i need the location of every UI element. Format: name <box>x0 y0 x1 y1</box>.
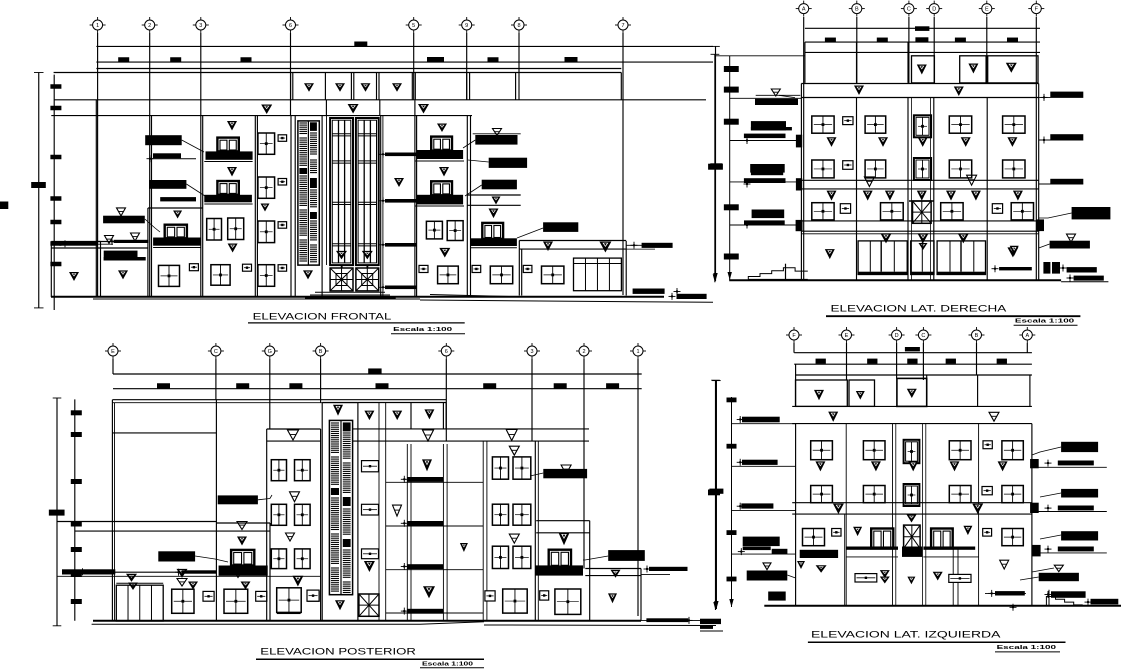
posterior: tower top band <box>267 428 321 430</box>
frontal: tower wall inner <box>326 116 328 266</box>
frontal: arrow bar <box>59 242 98 246</box>
posterior: bay sq r2 <box>362 504 379 515</box>
derecha: mark <box>1007 247 1018 257</box>
izquierda: pent mark <box>907 389 917 398</box>
frontal: S4 ground window <box>211 265 230 286</box>
frontal: S6 window L2 <box>258 221 275 243</box>
izquierda: slab band top <box>792 405 1032 407</box>
frontal: S10 balcony rail 4 <box>417 150 463 159</box>
posterior: tw r2 a <box>271 504 286 525</box>
posterior: left wall slab top <box>57 521 216 523</box>
izquierda: small window <box>855 574 877 582</box>
frontal: S4 balcony rail L4 <box>206 151 253 159</box>
izquierda: stair mass <box>768 592 786 601</box>
frontal: roof band level mark <box>261 105 272 115</box>
svg-text:7: 7 <box>621 23 624 29</box>
svg-text:1: 1 <box>96 23 99 29</box>
derecha: right blob <box>1050 241 1090 249</box>
posterior: label blob mid <box>158 551 195 561</box>
posterior: bay wall d <box>442 444 444 621</box>
frontal: bay slab edge 4 <box>385 286 417 290</box>
izquierda: grid bubble D <box>892 330 902 340</box>
frontal: wall <box>100 242 102 298</box>
posterior: bay floor line 3 <box>386 569 484 571</box>
posterior: grid bubble 3 <box>527 346 537 356</box>
derecha: window r1 <box>1003 116 1025 133</box>
frontal: storefront glazing <box>574 258 622 291</box>
izquierda: right box r2 <box>1030 503 1039 513</box>
izquierda: mark <box>853 527 862 536</box>
frontal: label blob + mark <box>117 208 126 216</box>
posterior: outer dim line <box>56 398 58 626</box>
izquierda: slab2 bottom <box>792 513 1032 515</box>
frontal: S10 window a <box>426 221 442 239</box>
frontal: stair window frame <box>298 121 319 265</box>
frontal: S10 window b <box>447 221 463 241</box>
derecha: slab band bottom <box>801 188 1038 190</box>
izquierda: dim blob <box>867 359 877 364</box>
posterior: CG mark below <box>237 537 247 546</box>
posterior: dim blob high <box>368 368 381 374</box>
frontal: S11 band mark <box>492 197 501 205</box>
derecha: right bar 5 <box>1074 276 1104 281</box>
derecha: level mark r1 <box>918 137 928 147</box>
svg-text:B: B <box>975 333 979 339</box>
posterior: left wall slab bottom <box>75 530 217 532</box>
frontal: S4 balcony line L3 <box>204 203 252 205</box>
derecha: facade right edge <box>1038 84 1040 281</box>
posterior: left dim tick <box>71 547 82 552</box>
posterior: left dim tick <box>71 410 82 415</box>
izquierda: entrance <box>904 525 921 548</box>
svg-text:3: 3 <box>530 349 533 355</box>
posterior: rb mark <box>559 533 570 546</box>
izquierda: slab2 mark <box>972 504 983 515</box>
svg-text:A: A <box>1025 333 1029 339</box>
frontal: dim text blob <box>354 42 367 47</box>
posterior: tw r3 a <box>271 549 286 569</box>
frontal: roof band bottom line <box>51 115 472 117</box>
derecha: window r1 <box>865 116 886 133</box>
posterior: garage door <box>116 585 163 621</box>
derecha: penthouse mark <box>917 65 927 75</box>
derecha: inner dim line <box>729 56 731 280</box>
derecha: window r3 <box>1011 203 1033 220</box>
posterior: mark garage a <box>126 574 137 582</box>
derecha: left dim tick <box>724 119 739 125</box>
posterior: left dim tick <box>71 599 82 604</box>
frontal: left dim tick <box>50 84 61 89</box>
posterior: elev hatch frame <box>329 420 352 594</box>
izquierda: right mark <box>1054 565 1063 572</box>
frontal: left dim tick <box>50 106 61 111</box>
posterior: pent band mark <box>423 430 434 441</box>
frontal: S4 level mark <box>227 167 237 177</box>
izquierda: pent wall left <box>795 364 797 406</box>
frontal: S10 balcony door 3 <box>431 181 452 195</box>
frontal: stair level mark <box>303 270 313 279</box>
frontal: long leader <box>54 243 113 245</box>
frontal: ground line 2 <box>93 298 420 300</box>
frontal: left dim tick <box>50 241 61 246</box>
izquierda: vent <box>983 529 992 537</box>
posterior: annex right edge <box>640 569 642 621</box>
frontal: curtain wall left <box>330 118 353 265</box>
derecha: grid line D <box>933 17 935 83</box>
frontal: grid line 4 <box>290 33 292 115</box>
izquierda: facade left edge <box>795 424 797 605</box>
izquierda: label bar2 <box>742 460 778 465</box>
frontal: right bottom bar <box>633 289 665 294</box>
posterior: mt mark2 <box>509 534 519 543</box>
posterior: bay floor line 4 <box>386 612 484 614</box>
derecha: level mark r3 <box>827 191 837 201</box>
derecha: label bar <box>744 220 785 224</box>
posterior: left dim tick <box>71 432 82 437</box>
derecha: level mark r3 <box>863 191 873 201</box>
posterior: dim blob <box>606 383 619 389</box>
izquierda: mark stacked <box>880 577 890 584</box>
frontal: dim text blob <box>427 57 444 62</box>
frontal: S3 balcony door <box>165 225 187 239</box>
frontal: top dimension line A <box>96 45 713 47</box>
izquierda: bay mark <box>907 515 917 523</box>
posterior: label bar <box>62 569 115 574</box>
frontal: inner left dim line <box>53 75 55 310</box>
frontal: right leader <box>626 248 655 250</box>
svg-text:Escala 1:100: Escala 1:100 <box>1015 319 1074 325</box>
izquierda: porch wall a <box>952 547 954 606</box>
frontal: S1 roof line <box>51 241 100 243</box>
frontal: terrain line <box>430 295 519 297</box>
derecha: parapet line 2 <box>805 41 1040 43</box>
izquierda: ground door <box>931 529 953 549</box>
derecha: elevator window r1 <box>914 115 931 137</box>
derecha: head line <box>801 233 1038 235</box>
izquierda: grid line <box>793 343 795 353</box>
izquierda: right bar1 <box>1058 461 1094 466</box>
derecha: facade wall <box>933 98 935 281</box>
posterior: left dim line <box>74 399 76 620</box>
izquierda: grid line <box>846 343 848 380</box>
posterior: grid bubble G <box>265 346 275 356</box>
posterior: annex mark2 <box>608 593 617 603</box>
izquierda: left dim line <box>715 381 717 609</box>
izquierda: right blob3 <box>1061 531 1098 540</box>
frontal: label blob <box>482 180 517 190</box>
frontal: wall <box>147 208 149 297</box>
frontal: wall <box>256 116 258 298</box>
posterior: tw r3 b <box>295 549 311 569</box>
posterior: elev top mark <box>333 405 343 416</box>
posterior: elev hatch d <box>343 462 351 464</box>
frontal: grid line 1 <box>97 33 99 297</box>
derecha: window r3 <box>941 203 963 220</box>
derecha: elevator bay wall <box>911 98 913 281</box>
izquierda: small window <box>949 574 971 582</box>
frontal: left dim tick <box>50 262 61 267</box>
posterior: grid line <box>637 359 639 616</box>
izquierda: right blob1 <box>1061 442 1098 452</box>
posterior: mark win1 stack b <box>177 579 187 587</box>
derecha: window r3 <box>812 203 834 220</box>
posterior: vent <box>256 591 267 601</box>
frontal: S11 roof band <box>467 204 520 206</box>
izquierda: elevator bay <box>895 424 897 605</box>
posterior: elev hatch g <box>331 533 339 535</box>
frontal: penthouse wall <box>411 73 413 100</box>
derecha: mark below band3 <box>918 233 929 243</box>
posterior: ground window <box>224 589 248 613</box>
frontal: S4 top level mark <box>227 121 237 131</box>
derecha: grid bubble A <box>799 4 809 14</box>
derecha: left dim tick <box>724 204 739 210</box>
frontal: penthouse wall <box>620 73 622 100</box>
izquierda: ground door <box>871 529 893 549</box>
derecha: slab band3 bottom <box>801 230 1038 232</box>
posterior: pent top line <box>358 402 446 404</box>
izquierda: facade wall <box>978 424 980 605</box>
derecha: right boxes <box>1043 262 1050 274</box>
frontal: left dim tick <box>50 196 61 201</box>
posterior: bay mark low <box>423 586 435 598</box>
frontal: S10 balcony line 4 <box>415 160 464 162</box>
derecha: window r2 <box>949 160 971 178</box>
izquierda: grid bubble E <box>842 330 852 340</box>
derecha: roof band bottom <box>801 97 1038 99</box>
posterior: mark garage b <box>128 583 138 591</box>
posterior: left dim tick <box>71 522 82 527</box>
frontal: penthouse wall <box>353 73 355 100</box>
derecha: label blob <box>752 210 785 219</box>
frontal: grid line 7 <box>518 33 520 100</box>
frontal: dim text blob <box>241 57 252 62</box>
derecha: entry steps <box>751 278 753 280</box>
derecha: right bar 2 <box>1039 139 1084 141</box>
posterior: elev hatch i <box>331 567 339 569</box>
posterior: elev block d <box>343 539 351 547</box>
izquierda: grid bubble C <box>918 330 928 340</box>
izquierda: level mark r1 <box>950 461 960 471</box>
svg-text:E: E <box>985 7 989 13</box>
frontal: entry door left <box>330 268 353 291</box>
posterior: label thin bar <box>182 570 216 573</box>
frontal: roof band divider <box>325 100 327 116</box>
frontal: wall line S1 left edge <box>50 242 52 298</box>
frontal: S4 balcony door L4 <box>217 138 238 152</box>
posterior: elev block c <box>343 497 351 506</box>
posterior: mt r3 a <box>492 546 508 568</box>
posterior: tower right edge <box>320 429 322 621</box>
derecha: storefront bay2 door <box>911 241 934 275</box>
frontal: S6 vent L2 <box>278 222 287 229</box>
derecha: window r2 <box>812 160 834 178</box>
posterior: left wall left edge <box>111 400 113 621</box>
frontal: grid bubble 7 <box>514 20 524 30</box>
svg-text:Escala 1:100: Escala 1:100 <box>997 645 1056 651</box>
posterior: annex mark <box>611 570 621 578</box>
svg-text:C: C <box>921 333 925 339</box>
frontal: S3 ground window <box>159 265 180 286</box>
frontal: stair block d <box>310 212 317 219</box>
izquierda: right bar3 <box>1058 547 1094 552</box>
derecha: grid line C <box>908 17 910 83</box>
derecha: left dim line <box>714 54 716 282</box>
derecha: top ext line <box>714 55 805 57</box>
posterior: grid bubble B <box>316 346 326 356</box>
derecha: facade left edge <box>800 84 802 281</box>
izquierda: parapet line3 <box>796 374 1032 376</box>
posterior: mark win2 open <box>233 570 243 578</box>
posterior: mt r2 a <box>492 504 508 525</box>
posterior: bay floor line 1 <box>386 481 484 483</box>
frontal: S10 ground window <box>438 266 459 284</box>
izquierda: elev window r1 <box>904 440 920 463</box>
izquierda: pent box 2 <box>849 380 875 406</box>
izquierda: pent mark <box>856 391 865 400</box>
frontal: storefront right edge <box>625 241 627 296</box>
frontal: S11 level mark <box>489 209 499 219</box>
frontal: right dim tick <box>708 164 723 170</box>
posterior: bay slab bar 1 <box>407 477 443 482</box>
frontal: S3 level mark <box>173 211 182 219</box>
svg-text:5: 5 <box>412 23 415 29</box>
derecha: vent r1 <box>843 117 853 125</box>
frontal: wall grid2 <box>151 116 153 298</box>
frontal: top dimension line B <box>96 61 713 63</box>
izquierda: ground window <box>1002 529 1023 546</box>
izquierda: mark <box>963 526 972 535</box>
posterior: mt ground win <box>503 589 528 613</box>
izquierda: window r2 <box>863 486 885 503</box>
posterior: mt r1 a <box>492 457 508 479</box>
izquierda: porch line b <box>923 556 978 558</box>
izquierda: elev head <box>897 378 927 406</box>
posterior: bay mark mid <box>422 459 432 471</box>
posterior: grid line <box>215 359 217 399</box>
frontal: dim text blob <box>170 57 181 62</box>
posterior: elev tower walls <box>321 403 323 621</box>
posterior: ground line <box>93 620 641 622</box>
derecha: right big blob <box>1072 207 1111 219</box>
svg-text:3: 3 <box>199 23 202 29</box>
frontal: S1 roof line 2 <box>51 247 148 249</box>
posterior: dim blob <box>376 383 389 389</box>
frontal: right dim line <box>715 46 717 281</box>
frontal: dim text blob <box>488 57 499 62</box>
izquierda: facade right edge <box>1031 424 1033 605</box>
izquierda: grid bubble F <box>789 330 799 340</box>
posterior: grid bubble 6 <box>441 346 451 356</box>
frontal: stair hatch e <box>310 159 317 161</box>
izquierda: grid line <box>976 343 978 375</box>
derecha: grid line B <box>856 17 858 83</box>
frontal: wall <box>470 116 472 297</box>
frontal: S4 balcony rail L3 <box>204 195 252 203</box>
frontal: penthouse wall <box>515 73 517 100</box>
izquierda: pent mark <box>814 390 824 400</box>
svg-text:D: D <box>932 7 936 13</box>
frontal: annex mark <box>599 242 611 253</box>
posterior: tower band mark <box>288 430 299 440</box>
frontal: label bar <box>160 197 196 201</box>
frontal: grid bubble 1 <box>93 20 103 30</box>
frontal: penthouse wall <box>376 73 378 100</box>
svg-text:E: E <box>845 333 849 339</box>
izquierda: band mark <box>828 412 838 422</box>
frontal: label blob <box>489 158 527 168</box>
derecha: parapet dim blob <box>1007 38 1018 43</box>
posterior: ground window <box>172 589 194 613</box>
frontal: grid bubble 4 <box>286 20 296 30</box>
frontal: roof band level mark <box>418 104 429 114</box>
posterior: ground line2 <box>92 623 420 625</box>
frontal: wall grid1 <box>95 116 97 298</box>
frontal: wall <box>518 241 520 296</box>
svg-text:G: G <box>268 349 272 355</box>
derecha: grid line E <box>986 17 988 83</box>
frontal: curtain wall right <box>356 118 379 265</box>
derecha: roof band mark <box>954 87 964 97</box>
izquierda: dim blob high <box>905 347 920 351</box>
page: margin line <box>700 630 723 632</box>
posterior: pent cells <box>410 403 412 429</box>
frontal: level mark <box>362 251 373 260</box>
izquierda: label2 <box>743 537 780 547</box>
derecha: grid line F <box>1035 17 1037 280</box>
svg-text:A: A <box>802 7 806 13</box>
derecha: elevator door r3 <box>913 201 932 223</box>
izquierda: mark big <box>816 565 827 573</box>
derecha: slab mark <box>967 175 977 185</box>
posterior: bay mark mid2 <box>393 505 402 516</box>
frontal: S4 balcony line L4 <box>204 161 252 163</box>
izquierda: canopy bar2 <box>923 547 975 550</box>
posterior: vent <box>203 591 214 601</box>
derecha: penthouse box 2 <box>960 56 986 83</box>
frontal: S10 balcony rail 3 <box>417 195 463 205</box>
frontal: base line right <box>420 300 713 302</box>
posterior: elev tower top <box>322 402 358 404</box>
frontal: stair hatch c <box>299 137 307 139</box>
posterior: elev mullion <box>340 420 342 594</box>
derecha: level mark r3 <box>971 191 981 201</box>
izquierda: bottom bar 2 <box>1051 591 1086 598</box>
derecha: label blob <box>751 121 786 130</box>
frontal: S11 ground window <box>490 266 512 284</box>
derecha: grid bubble C <box>904 4 914 14</box>
posterior: tw mark <box>290 492 300 502</box>
frontal: level mark <box>336 251 347 260</box>
frontal: bay level mark <box>394 178 404 187</box>
svg-text:ELEVACION LAT. DERECHA: ELEVACION LAT. DERECHA <box>831 304 1008 315</box>
izquierda: vent r2 <box>982 487 992 495</box>
derecha: label blob <box>755 99 798 105</box>
izquierda: facade wall <box>845 424 847 605</box>
izquierda: mark left <box>797 561 805 569</box>
posterior: vent <box>308 591 319 601</box>
izquierda: ground line <box>764 605 1121 607</box>
frontal: penthouse wall <box>350 73 352 100</box>
frontal: S4 vent box <box>243 264 252 271</box>
frontal: penthouse wall <box>414 73 416 100</box>
frontal: S6 ground window <box>258 265 275 287</box>
posterior: rb balcony door <box>549 550 571 567</box>
posterior: slab line 2F <box>57 575 321 577</box>
derecha: level mark r3 <box>1013 191 1023 201</box>
posterior: pent band mark2 <box>506 430 517 441</box>
frontal: S10 balcony door 4 <box>431 137 452 151</box>
